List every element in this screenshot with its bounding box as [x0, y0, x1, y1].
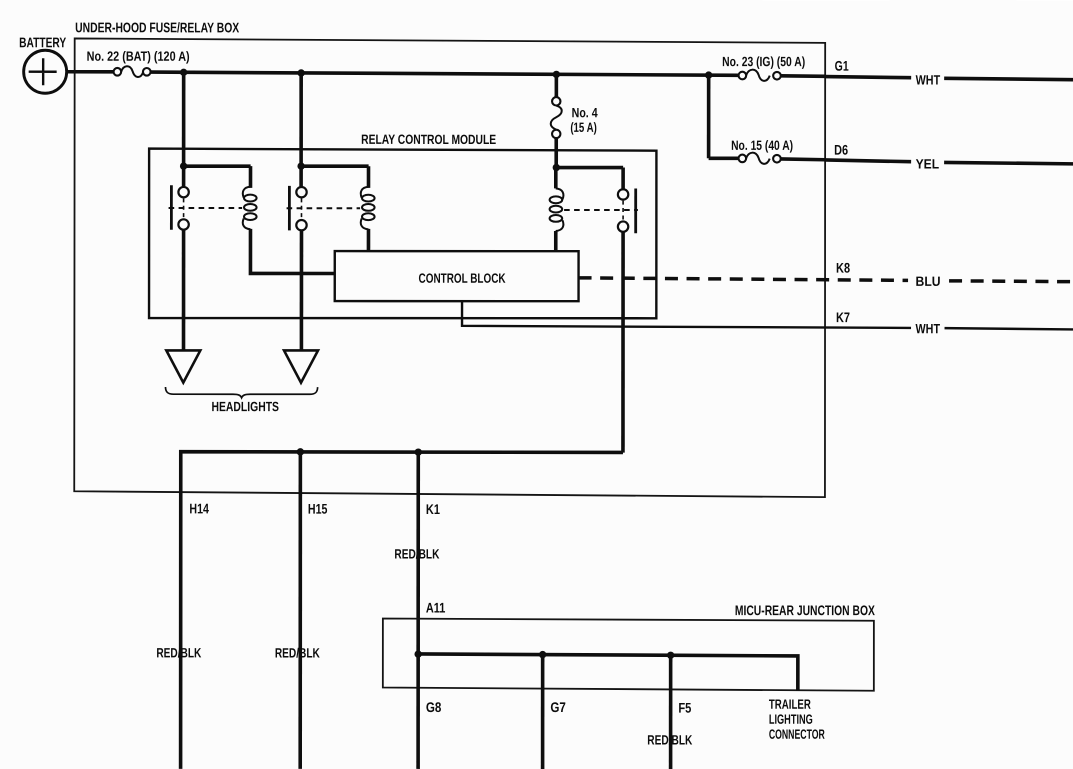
svg-text:H15: H15 — [308, 501, 328, 517]
svg-text:TRAILER: TRAILER — [769, 697, 811, 712]
svg-text:K1: K1 — [426, 501, 440, 517]
svg-text:WHT: WHT — [916, 72, 941, 87]
wire G8 — [416, 654, 420, 769]
bus wire from relay3 switch to H14 — [181, 452, 623, 769]
relay1 coil — [243, 187, 251, 198]
svg-text:CONNECTOR: CONNECTOR — [769, 727, 825, 742]
svg-text:RED/BLK: RED/BLK — [156, 645, 201, 660]
svg-text:BATTERY: BATTERY — [19, 34, 66, 50]
relay1 armature bar — [170, 185, 173, 230]
wire relay1 coil to control block — [250, 229, 334, 274]
fuse No.23 (IG)(50 A) — [722, 54, 805, 81]
node F5 tap — [667, 652, 674, 659]
svg-text:RELAY CONTROL MODULE: RELAY CONTROL MODULE — [361, 132, 496, 147]
headlight 1 — [166, 350, 200, 382]
relay control module box — [149, 149, 656, 319]
node relay3 feed — [553, 164, 560, 171]
svg-text:CONTROL BLOCK: CONTROL BLOCK — [419, 271, 506, 286]
wire relay1 top — [184, 166, 251, 188]
svg-text:No. 23 (IG) (50 A): No. 23 (IG) (50 A) — [722, 54, 805, 69]
wire relay2 top — [301, 166, 369, 188]
svg-text:G7: G7 — [550, 699, 566, 715]
wire relay1 switch to headlight 1 — [182, 230, 186, 351]
svg-text:HEADLIGHTS: HEADLIGHTS — [211, 399, 279, 414]
relay 3 — [549, 164, 637, 453]
wire relay2 coil to control block — [367, 229, 371, 251]
wire G7 — [541, 655, 545, 769]
svg-text:F5: F5 — [678, 700, 691, 716]
node relay2 feed — [297, 162, 304, 169]
wire relay3 coil to control block — [554, 231, 558, 251]
relay3 mech dashed link — [564, 209, 638, 211]
relay2 coil — [361, 187, 369, 198]
headlight 2 — [284, 350, 318, 382]
fuse No.15 (40 A) — [709, 138, 794, 164]
wire D6 YEL — [825, 156, 1073, 171]
relay1 contact dashed link — [183, 198, 185, 219]
relay2 contact top — [296, 187, 306, 197]
relay3 coil — [556, 188, 564, 199]
wire down to fuse No.15 row — [707, 75, 711, 158]
svg-text:BLU: BLU — [916, 274, 941, 289]
svg-text:No. 4: No. 4 — [572, 105, 598, 120]
label trailer lighting connector — [769, 697, 825, 742]
wire battery to fuse No.22 — [67, 70, 114, 74]
wire H15 — [298, 452, 302, 769]
node relay1 feed — [180, 162, 187, 169]
wire fuse No.4 to relay 3 — [554, 138, 558, 168]
svg-text:H14: H14 — [189, 500, 209, 516]
relay1 contact bottom — [178, 219, 188, 229]
node K1 tap — [415, 448, 422, 455]
relay3 armature bar — [634, 189, 637, 234]
svg-text:D6: D6 — [834, 142, 848, 158]
node H15 tap — [297, 448, 304, 455]
svg-text:RED/BLK: RED/BLK — [275, 645, 320, 660]
wire K7 WHT — [462, 301, 1073, 336]
svg-text:(15 A): (15 A) — [570, 120, 597, 135]
wire down to fuse No.4 — [555, 74, 559, 97]
wire fuse 15 to box edge — [781, 157, 826, 161]
node feed fuse No.4 — [553, 71, 560, 78]
under-hood fuse/relay box — [74, 38, 825, 497]
relay1 contact top — [178, 187, 188, 197]
wire down to relay 1 — [182, 72, 186, 166]
relay3 contact dashed link — [622, 201, 624, 221]
relay2 contact bottom — [296, 220, 306, 230]
control block — [335, 251, 579, 301]
svg-text:RED/BLK: RED/BLK — [647, 732, 692, 747]
fuse No.22 (BAT)(120 A) — [87, 49, 190, 77]
node A11/G8 — [414, 650, 421, 657]
relay 1 — [169, 162, 335, 350]
relay2 contact dashed link — [300, 198, 302, 219]
relay3 contact top — [618, 189, 628, 199]
wire relay3 top — [556, 168, 623, 190]
wire G1 WHT — [825, 72, 1073, 87]
wire relay2 switch to headlight 2 — [300, 230, 304, 350]
relay3 contact bottom — [618, 221, 628, 231]
wire K8 BLU dashed — [579, 260, 1073, 289]
headlights brace — [165, 387, 317, 398]
svg-text:YEL: YEL — [916, 156, 940, 171]
MICU-rear junction box — [383, 619, 874, 691]
node G7 tap — [539, 651, 546, 658]
battery — [19, 34, 67, 93]
svg-text:K7: K7 — [836, 309, 850, 325]
relay 2 — [287, 162, 375, 350]
svg-text:LIGHTING: LIGHTING — [769, 712, 813, 727]
wire F5 — [669, 655, 673, 769]
svg-text:UNDER-HOOD FUSE/RELAY BOX: UNDER-HOOD FUSE/RELAY BOX — [75, 19, 239, 35]
wire fuse 23 to box edge — [781, 74, 826, 78]
svg-text:No. 15 (40 A): No. 15 (40 A) — [731, 138, 793, 153]
relay2 armature bar — [288, 186, 291, 231]
wire K1 down to MICU — [416, 452, 420, 654]
svg-text:K8: K8 — [836, 260, 850, 276]
wire down to relay 2 — [299, 73, 303, 166]
relay2 mech dashed link — [287, 207, 361, 209]
svg-text:G1: G1 — [835, 58, 849, 74]
node feed fuses 23/15 — [705, 71, 712, 78]
svg-text:No. 22 (BAT) (120 A): No. 22 (BAT) (120 A) — [87, 49, 190, 64]
node feed relay 2 — [297, 69, 304, 76]
svg-text:A11: A11 — [426, 599, 446, 615]
fuse No.4 (15 A) — [551, 97, 598, 138]
svg-text:MICU-REAR JUNCTION BOX: MICU-REAR JUNCTION BOX — [735, 602, 875, 618]
wire relay3 switch down to bus — [621, 232, 625, 453]
node feed relay 1 — [180, 69, 187, 76]
svg-text:WHT: WHT — [916, 321, 941, 336]
relay1 mech dashed link — [169, 207, 242, 209]
MICU bus wire to trailer connector — [418, 654, 798, 691]
svg-text:RED/BLK: RED/BLK — [394, 547, 439, 562]
main bus wire — [150, 72, 738, 75]
svg-text:G8: G8 — [426, 699, 442, 715]
